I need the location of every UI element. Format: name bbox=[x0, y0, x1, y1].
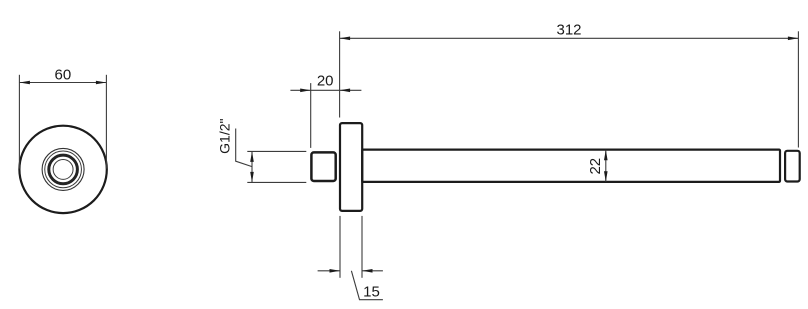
dim 20: right arrowhead (outside, pointing left) bbox=[340, 89, 351, 93]
dim 60: dimension line bbox=[19, 82, 106, 84]
dim 312: right arrowhead bbox=[788, 37, 799, 41]
front view: flange outer circle bbox=[19, 126, 106, 213]
dim 15: right extension line bbox=[361, 216, 363, 278]
dim 15: left dimension line segment bbox=[318, 270, 340, 272]
dim G1/2: leader polyline bbox=[236, 129, 252, 167]
dim 20: left arrowhead (outside, pointing right) bbox=[300, 89, 311, 93]
side view: end cap nut bbox=[785, 151, 800, 182]
svg-text:312: 312 bbox=[556, 21, 581, 38]
side view: shower arm tube bbox=[362, 150, 780, 182]
dim 312: dimension line bbox=[340, 37, 799, 39]
front view: escutcheon ring inner bbox=[45, 151, 82, 188]
front view: bore circle bbox=[53, 159, 73, 179]
dim G1/2: top extension line bbox=[247, 150, 306, 152]
dim 312: left extension line bbox=[339, 31, 341, 117]
dim G1/2: bottom extension line bbox=[247, 181, 306, 183]
dim 15: left extension line bbox=[339, 216, 341, 278]
svg-text:20: 20 bbox=[317, 73, 334, 90]
dim G1/2: top arrowhead bbox=[250, 151, 254, 162]
dim G1/2: dimension line with outward arrows bbox=[251, 151, 253, 182]
dim 60: right arrowhead bbox=[96, 81, 107, 85]
svg-text:G1/2": G1/2" bbox=[217, 119, 233, 154]
dim 15: left arrowhead (outside, pointing right) bbox=[330, 269, 341, 273]
dim 22: top arrowhead bbox=[604, 150, 608, 161]
dim 312: right extension line bbox=[797, 31, 799, 147]
front view: threaded nipple ring (thick) bbox=[49, 155, 78, 184]
svg-text:22: 22 bbox=[587, 158, 604, 175]
dim G1/2: bottom arrowhead bbox=[250, 172, 254, 183]
dim 20: left extension line bbox=[310, 83, 312, 148]
dim 60: right extension line bbox=[105, 75, 107, 169]
side view: wall flange plate bbox=[340, 123, 362, 211]
side view: G1/2 threaded nipple bbox=[311, 152, 335, 181]
dim 22: bottom arrowhead bbox=[604, 171, 608, 182]
dim 312: left arrowhead bbox=[340, 37, 351, 41]
front view: escutcheon ring outer bbox=[42, 148, 84, 190]
svg-text:15: 15 bbox=[363, 283, 380, 300]
dim 20: dimension line bbox=[290, 89, 361, 91]
svg-text:60: 60 bbox=[55, 66, 72, 83]
dim 15: right arrowhead (outside, pointing left) bbox=[362, 269, 373, 273]
dim 15: right dimension line segment bbox=[362, 270, 383, 272]
dim 15: leader polyline bbox=[351, 271, 383, 300]
dim 60: left extension line bbox=[18, 75, 20, 169]
dim 60: left arrowhead bbox=[19, 81, 30, 85]
dim 22: dimension line with outward arrows bbox=[605, 150, 607, 182]
